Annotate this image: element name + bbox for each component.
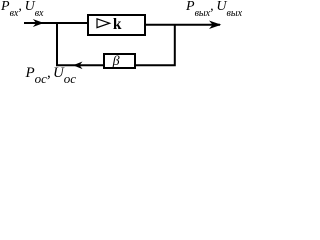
svg-text:k: k [113, 16, 122, 33]
svg-text:β: β [112, 54, 120, 69]
